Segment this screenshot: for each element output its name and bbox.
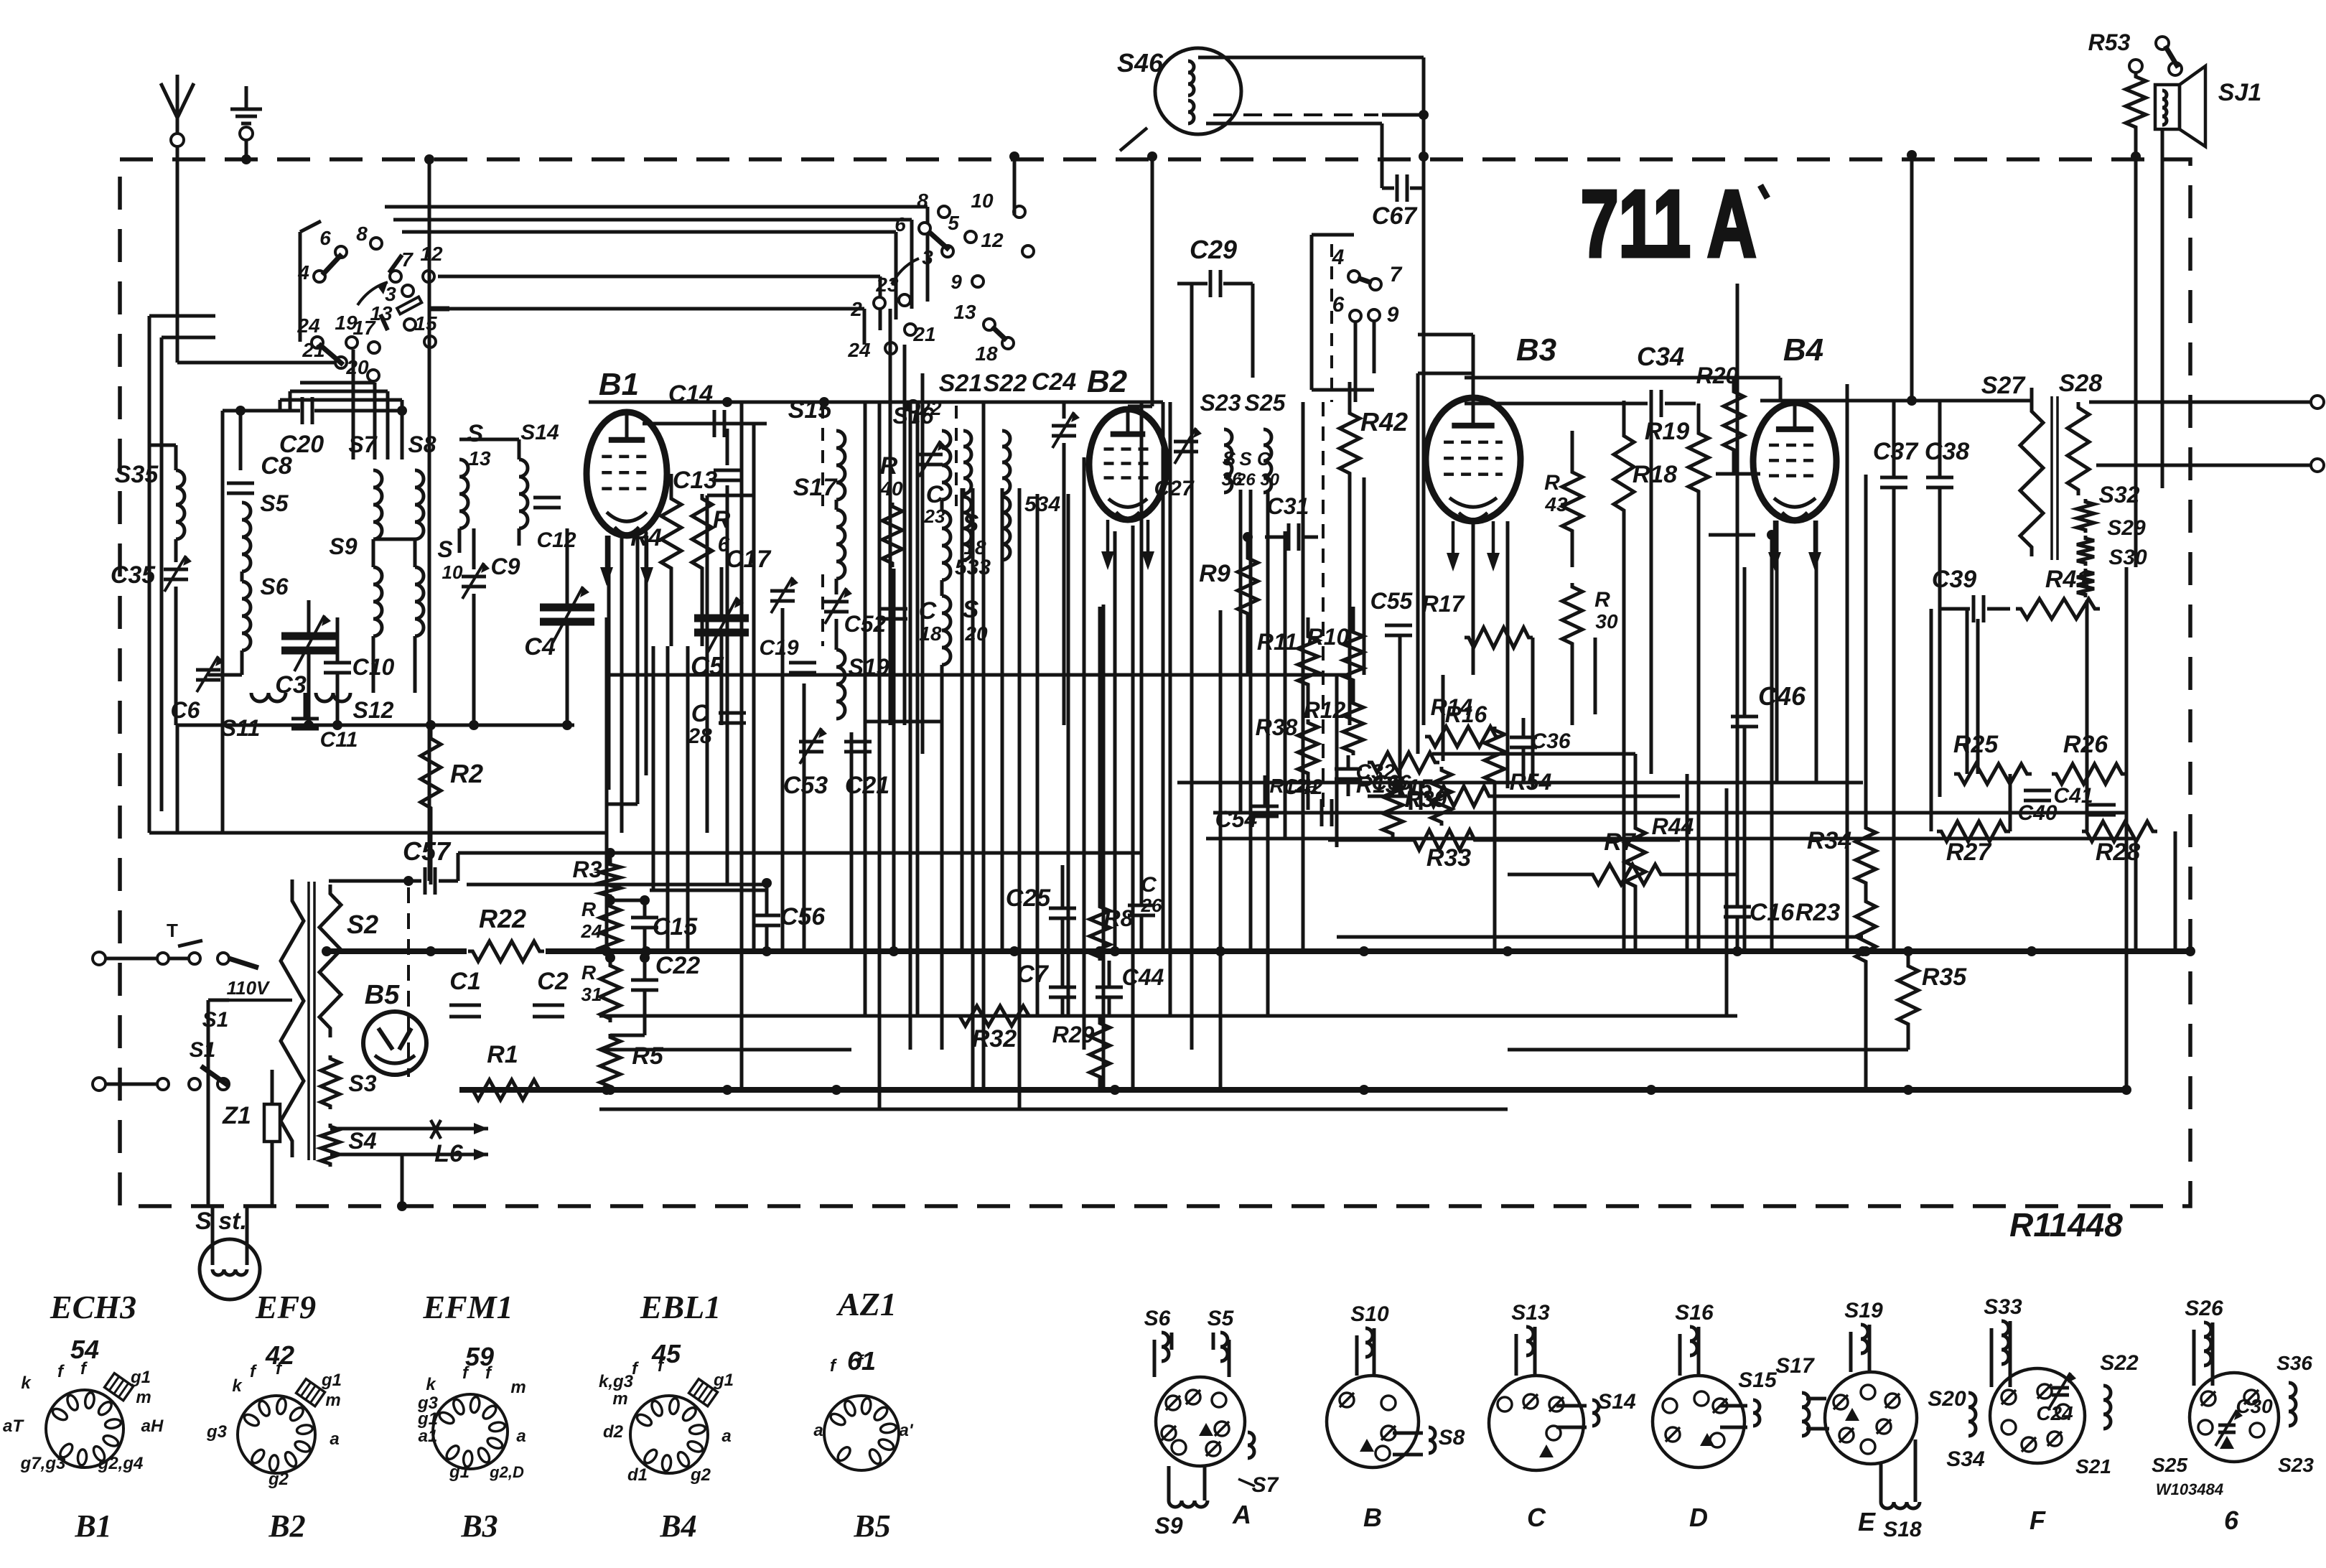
cap C31: [1265, 536, 1285, 539]
coil S33: [963, 497, 971, 560]
nested bus wires switch1-switch2: [385, 205, 928, 209]
trimmer C53: [799, 740, 823, 744]
coil S22: [1002, 431, 1010, 494]
svg-text:R38: R38: [1256, 714, 1298, 740]
svg-text:S1: S1: [202, 1008, 229, 1032]
tube B1: [587, 412, 667, 536]
resistor R54: [1424, 786, 1493, 806]
coil S13: [459, 459, 468, 528]
resistor R25: [1954, 764, 2032, 784]
coil S16: [942, 431, 951, 500]
svg-text:R28: R28: [2096, 839, 2140, 866]
svg-text:S23: S23: [1200, 390, 1241, 416]
svg-text:R53: R53: [2088, 29, 2131, 55]
tube base EBL1: [630, 1396, 708, 1473]
resistor R29: [1090, 1019, 1110, 1081]
tuning cap C4: [540, 604, 594, 612]
svg-text:30: 30: [1595, 610, 1618, 633]
svg-text:26 30: 26 30: [1236, 470, 1280, 490]
svg-text:C4: C4: [524, 633, 556, 661]
resistor R11: [1298, 633, 1318, 688]
svg-text:k: k: [21, 1373, 32, 1393]
vertical from border: [1910, 155, 1914, 401]
cap C67: [1381, 157, 1384, 188]
svg-text:5: 5: [948, 212, 959, 234]
svg-text:R27: R27: [1946, 839, 1992, 866]
svg-text:S: S: [1223, 447, 1236, 470]
plate line to B4: [1760, 399, 2032, 403]
svg-text:6: 6: [895, 213, 906, 235]
svg-text:S1: S1: [190, 1038, 216, 1062]
svg-text:k: k: [232, 1376, 243, 1396]
tube B3: [1426, 398, 1521, 521]
resistor R26: [2052, 764, 2126, 784]
svg-text:C15: C15: [653, 913, 698, 941]
output transformer primary S27: [2020, 402, 2043, 556]
svg-text:S6: S6: [1144, 1307, 1171, 1330]
coil S10: [415, 567, 424, 636]
svg-text:EF9: EF9: [255, 1289, 316, 1325]
svg-text:8: 8: [917, 190, 928, 212]
resistor R8: [1090, 903, 1110, 961]
svg-text:S19: S19: [1844, 1299, 1883, 1322]
tube base AZ1: [824, 1396, 899, 1470]
svg-text:R23: R23: [1795, 899, 1840, 926]
svg-text:S29: S29: [2107, 516, 2146, 540]
svg-text:B2: B2: [268, 1508, 305, 1544]
svg-text:R33: R33: [1426, 844, 1471, 872]
wire: [518, 528, 521, 546]
svg-text:12: 12: [981, 229, 1004, 251]
svg-text:S22: S22: [984, 370, 1027, 397]
connector C: [1489, 1376, 1584, 1470]
svg-text:R42: R42: [1360, 407, 1408, 437]
svg-text:E: E: [1858, 1507, 1876, 1536]
svg-text:2: 2: [850, 298, 862, 320]
tube B4: [1753, 403, 1836, 521]
resistor R12: [1343, 700, 1363, 755]
R3 top feed line: [458, 851, 607, 855]
svg-text:D: D: [1689, 1503, 1708, 1532]
svg-text:4: 4: [297, 261, 309, 284]
svg-text:AZ1: AZ1: [836, 1286, 897, 1322]
svg-text:24: 24: [847, 339, 871, 361]
svg-text:534: 534: [1024, 493, 1060, 516]
svg-text:S14: S14: [1597, 1390, 1636, 1414]
cap C54: [1251, 805, 1279, 808]
svg-text:24: 24: [581, 920, 602, 942]
cap C15: [631, 916, 658, 920]
svg-text:a: a: [721, 1427, 731, 1446]
svg-text:C8: C8: [261, 452, 292, 480]
svg-text:C3: C3: [275, 671, 307, 699]
connector B: [1327, 1376, 1419, 1467]
coil S7: [373, 470, 382, 539]
connector A: [1156, 1377, 1245, 1466]
svg-text:110V: 110V: [227, 977, 271, 999]
svg-text:SJ1: SJ1: [2218, 79, 2262, 106]
svg-text:R9: R9: [1199, 560, 1230, 587]
svg-text:B4: B4: [659, 1508, 696, 1544]
tube B3 top cap wire: [1472, 335, 1475, 398]
svg-text:S21: S21: [939, 370, 983, 397]
cap C1: [449, 1004, 481, 1007]
R5 resistor: [600, 1034, 620, 1090]
antenna: [176, 75, 179, 118]
cap C13: [726, 429, 729, 465]
svg-text:24: 24: [296, 314, 320, 337]
svg-text:S28: S28: [2059, 370, 2103, 397]
waveband switch bank 2: [938, 206, 950, 218]
svg-text:R7: R7: [1604, 829, 1637, 856]
svg-text:g2,g4: g2,g4: [98, 1454, 144, 1473]
svg-text:ECH3: ECH3: [50, 1289, 136, 1325]
svg-text:g7,g3: g7,g3: [20, 1454, 66, 1473]
svg-text:7: 7: [1390, 263, 1403, 286]
svg-text:C6: C6: [171, 697, 200, 723]
resistor R27: [1937, 821, 2010, 841]
coil S6: [242, 582, 251, 650]
svg-text:S9: S9: [329, 533, 357, 559]
bottom rail of coil block: [176, 724, 574, 727]
resistor R43: [1562, 468, 1582, 535]
svg-text:31: 31: [581, 984, 602, 1005]
trimmer C6: [196, 668, 220, 672]
svg-text:C17: C17: [726, 546, 772, 573]
svg-text:18: 18: [975, 342, 998, 365]
svg-text:R: R: [1594, 588, 1610, 612]
svg-text:C11: C11: [320, 728, 358, 752]
svg-text:S11: S11: [221, 715, 261, 741]
svg-text:4: 4: [1332, 246, 1345, 269]
svg-text:R17: R17: [1422, 591, 1466, 617]
svg-text:S21: S21: [2075, 1455, 2111, 1478]
svg-text:R1: R1: [487, 1041, 518, 1068]
svg-text:R: R: [581, 898, 597, 920]
svg-text:S: S: [437, 536, 453, 562]
coil S9: [373, 567, 382, 636]
svg-text:13: 13: [468, 447, 491, 470]
speaker wires: [2134, 131, 2138, 157]
cap C22: [631, 979, 658, 982]
svg-text:k: k: [426, 1375, 436, 1394]
earth ground: [245, 86, 248, 108]
svg-text:S34: S34: [1946, 1447, 1985, 1471]
svg-text:R3: R3: [573, 857, 602, 882]
tuning cap C3: [281, 633, 336, 640]
svg-text:C12: C12: [536, 528, 576, 552]
svg-text:S20: S20: [1928, 1387, 1966, 1411]
trimmer C27: [1174, 440, 1198, 444]
coil S46: [1155, 48, 1241, 134]
loudspeaker SM: [2155, 85, 2180, 129]
svg-text:10: 10: [442, 561, 463, 583]
svg-text:k,g3: k,g3: [599, 1372, 634, 1391]
svg-text:S5: S5: [260, 490, 289, 516]
R7 wire: [1508, 873, 1588, 877]
switch cluster 3: [1348, 271, 1360, 282]
upper long wire 1: [1213, 811, 2126, 815]
svg-text:C: C: [1141, 873, 1157, 897]
svg-text:S8: S8: [1439, 1426, 1465, 1450]
svg-text:C29: C29: [1190, 235, 1237, 264]
transformer core: [2050, 396, 2053, 560]
svg-text:S16: S16: [1675, 1301, 1714, 1325]
svg-text:g1: g1: [130, 1368, 151, 1387]
resistor R19: [1689, 429, 1709, 495]
vertical interconnect wires: [605, 617, 609, 951]
resistor R42: [1340, 409, 1360, 477]
resistor R23: [1856, 897, 1876, 966]
svg-text:13: 13: [953, 301, 976, 323]
svg-text:S18: S18: [1883, 1518, 1922, 1541]
svg-text:d2: d2: [603, 1422, 624, 1442]
svg-text:S14: S14: [520, 421, 559, 444]
cap C28: [719, 711, 746, 715]
svg-text:21: 21: [912, 323, 935, 345]
svg-text:C37: C37: [1873, 438, 1919, 465]
svg-text:S46: S46: [1117, 48, 1164, 78]
tube base EF9: [238, 1396, 315, 1473]
S46 wires: [1198, 56, 1424, 60]
resistor R4: [661, 494, 681, 573]
vertical from C57: [428, 159, 431, 881]
svg-text:21: 21: [302, 339, 324, 361]
resistor R32: [955, 1006, 1034, 1026]
cap C55: [1385, 624, 1412, 627]
svg-text:C24: C24: [2036, 1402, 2073, 1424]
coil S8: [415, 470, 424, 539]
resistor R35: [1898, 962, 1918, 1028]
connector E: [1825, 1372, 1917, 1464]
svg-text:S13: S13: [1511, 1301, 1550, 1325]
cap C39: [1938, 607, 1970, 611]
wire: [373, 538, 415, 541]
cap C38: [1926, 476, 1953, 480]
wire B1 bottom: [607, 536, 611, 790]
svg-text:g1: g1: [449, 1462, 470, 1482]
svg-text:C44: C44: [1122, 964, 1164, 990]
svg-text:711 A: 711 A: [1581, 172, 1757, 277]
svg-text:S15: S15: [1738, 1368, 1778, 1392]
svg-text:S: S: [467, 420, 484, 447]
tube B2: [1089, 409, 1167, 520]
svg-text:B5: B5: [365, 980, 400, 1010]
cap C2: [533, 1004, 564, 1007]
cap C26: [1128, 904, 1155, 907]
svg-text:9: 9: [1387, 303, 1399, 327]
svg-text:R10: R10: [1307, 624, 1350, 650]
coil S21: [963, 431, 971, 494]
upper long wire 2: [1206, 837, 2136, 841]
waveband switch bank 1: [299, 232, 302, 342]
mechanical link dashed: [1322, 402, 1325, 811]
svg-text:20: 20: [345, 356, 369, 378]
svg-text:g1: g1: [417, 1409, 438, 1429]
svg-text:S6: S6: [260, 574, 288, 599]
cap C20: [240, 409, 300, 413]
svg-text:R: R: [581, 961, 597, 984]
svg-text:T: T: [167, 920, 178, 941]
switch2 drop wires: [889, 309, 892, 725]
resistor R2: [421, 734, 441, 813]
resistor R40: [882, 503, 902, 567]
resistor R22: [468, 941, 544, 961]
connector G: [2190, 1373, 2279, 1462]
resistor R10: [1343, 629, 1363, 683]
rectifier B5: [363, 1012, 426, 1075]
output transformer secondary S28: [2068, 402, 2089, 495]
resistor R53: [2126, 73, 2146, 131]
resistor R17: [1465, 627, 1533, 648]
tube top rail: [589, 401, 973, 404]
R24 resistor: [600, 903, 620, 955]
svg-text:R8: R8: [1104, 905, 1134, 931]
resistor R20: [1724, 388, 1744, 454]
svg-text:g3: g3: [206, 1422, 228, 1442]
svg-text:a': a': [899, 1421, 913, 1440]
R3 resistor: [600, 862, 620, 899]
svg-text:B: B: [1363, 1503, 1382, 1532]
svg-text:S30: S30: [2108, 546, 2147, 569]
resistor R13: [1368, 752, 1439, 773]
trimmer C9: [462, 575, 486, 579]
svg-text:S32: S32: [2099, 482, 2140, 508]
coil S15: [836, 431, 845, 500]
trimmer C35: [164, 568, 188, 571]
svg-text:R11: R11: [1257, 629, 1297, 655]
cap C8: [239, 411, 243, 470]
wire bundle below switch1: [352, 350, 355, 459]
coil S11: [251, 693, 286, 701]
svg-text:EBL1: EBL1: [640, 1289, 721, 1325]
svg-text:R: R: [713, 506, 731, 533]
bus line 4: [599, 1108, 1508, 1111]
cap C46: [1731, 715, 1758, 719]
connector F: [1990, 1368, 2085, 1463]
trimmer C24: [1052, 424, 1076, 428]
svg-text:B1: B1: [74, 1508, 111, 1544]
svg-text:g2,D: g2,D: [489, 1463, 524, 1481]
svg-text:EFM1: EFM1: [422, 1289, 513, 1325]
cap C36: [1510, 736, 1537, 739]
svg-text:R16: R16: [1445, 701, 1487, 727]
resistor R33: [1410, 830, 1479, 850]
svg-text:R5: R5: [632, 1042, 664, 1070]
cap C18: [880, 607, 907, 611]
svg-text:C9: C9: [491, 554, 520, 579]
svg-text:m: m: [612, 1389, 627, 1409]
svg-text:S23: S23: [2278, 1454, 2314, 1476]
coil S34: [1002, 497, 1010, 560]
cap C37: [1880, 476, 1907, 480]
svg-text:C67: C67: [1372, 202, 1418, 230]
svg-text:m: m: [136, 1388, 151, 1407]
svg-text:C27: C27: [1154, 477, 1194, 500]
svg-text:S5: S5: [1208, 1307, 1235, 1330]
svg-text:6: 6: [319, 227, 331, 249]
svg-text:R29: R29: [1052, 1022, 1095, 1047]
power transformer primary: [281, 885, 304, 1157]
svg-text:R32: R32: [972, 1025, 1017, 1053]
resistor R14: [1425, 727, 1500, 747]
svg-text:C30: C30: [2236, 1395, 2273, 1417]
chassis dashed border: [120, 159, 2190, 1206]
coil S25: [1264, 429, 1271, 493]
coil S23: [1224, 429, 1232, 493]
cap C29: [1177, 282, 1208, 286]
mains terminal 1: [93, 952, 106, 965]
svg-text:g2: g2: [268, 1470, 289, 1489]
coil S12: [316, 693, 350, 701]
resistor R7: [1588, 864, 1666, 885]
svg-text:S36: S36: [2276, 1352, 2312, 1374]
connector D: [1653, 1376, 1744, 1467]
winding S32: [2077, 499, 2094, 533]
svg-text:S: S: [963, 596, 979, 623]
svg-text:15: 15: [414, 312, 437, 335]
cap C10: [324, 661, 351, 665]
cap C34: [1465, 402, 1648, 406]
svg-text:C39: C39: [1932, 566, 1976, 593]
trimmer C23: [918, 453, 943, 457]
svg-text:S C: S C: [1239, 448, 1271, 470]
svg-text:S27: S27: [1981, 372, 2027, 399]
svg-text:S22: S22: [2100, 1351, 2139, 1375]
svg-text:C57: C57: [403, 836, 452, 866]
trimmer C21: [844, 740, 872, 744]
coil S18: [942, 511, 951, 580]
svg-text:C: C: [1527, 1503, 1546, 1532]
svg-text:C24: C24: [1032, 368, 1076, 396]
svg-text:C13: C13: [673, 467, 717, 494]
svg-text:S25: S25: [2152, 1454, 2187, 1476]
switch1 left wires: [148, 316, 151, 833]
svg-text:B1: B1: [599, 367, 639, 402]
svg-text:S35: S35: [115, 461, 159, 488]
svg-text:S8: S8: [408, 431, 436, 457]
resistor R1: [468, 1080, 544, 1100]
cap C12: [533, 496, 561, 500]
mains terminal 2: [93, 1078, 106, 1091]
svg-text:43: 43: [1544, 493, 1568, 515]
bus line 3: [599, 1014, 1737, 1018]
resistor R39: [1383, 781, 1403, 837]
pilot lamp Sst: [200, 1239, 260, 1299]
tuning cap C5-left: [694, 615, 749, 622]
svg-text:S10: S10: [1350, 1302, 1389, 1326]
resistor R34: [1856, 824, 1876, 887]
svg-text:C7: C7: [1017, 961, 1050, 988]
svg-text:R22: R22: [479, 904, 526, 933]
svg-text:Z1: Z1: [222, 1102, 251, 1129]
winding S29: [2077, 536, 2094, 566]
coil S14: [519, 459, 528, 528]
resistor R28: [2082, 821, 2157, 841]
svg-text:R2: R2: [450, 759, 483, 788]
svg-text:S26: S26: [2185, 1297, 2223, 1320]
svg-text:B3: B3: [1516, 332, 1556, 368]
svg-text:C36: C36: [1531, 729, 1570, 753]
trimmer C17: [770, 589, 795, 593]
mains 110V tap: [229, 958, 258, 968]
svg-text:S2: S2: [347, 910, 378, 939]
coil S17: [836, 510, 845, 579]
svg-text:3: 3: [922, 246, 933, 269]
coil S20: [942, 596, 951, 665]
cap C66: [1409, 783, 1413, 810]
resistor R15: [1431, 767, 1452, 826]
